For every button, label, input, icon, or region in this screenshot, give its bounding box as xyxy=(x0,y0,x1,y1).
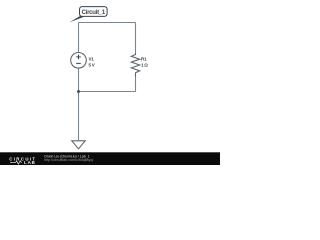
svg-text:R1: R1 xyxy=(141,56,147,61)
svg-text:LAB: LAB xyxy=(24,160,36,165)
svg-text:Circuit_1: Circuit_1 xyxy=(82,10,106,16)
svg-text:http://circuitlab.com/c/6dqkay: http://circuitlab.com/c/6dqkayq/ xyxy=(44,158,93,162)
svg-text:5 V: 5 V xyxy=(89,63,95,68)
svg-text:V1: V1 xyxy=(89,56,95,61)
svg-text:1 Ω: 1 Ω xyxy=(141,63,148,68)
